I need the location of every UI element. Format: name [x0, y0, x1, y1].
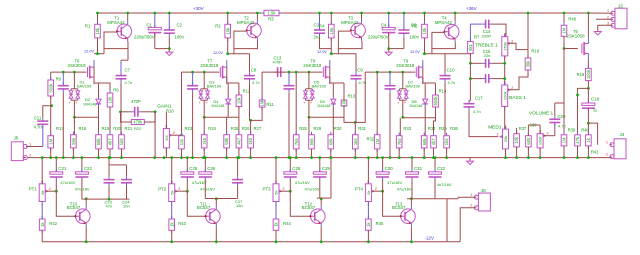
svg-text:5k: 5k — [366, 191, 371, 195]
wire to D2 — [98, 83, 100, 97]
wire T1 collector to rail — [127, 13, 129, 21]
wire C32 top — [434, 158, 436, 172]
junction tone cap1 right — [503, 62, 506, 65]
wire C24 top — [126, 165, 128, 176]
wire R39 bottom — [563, 146, 565, 158]
wire stage1 gate line — [51, 71, 87, 73]
junction C30 rail — [381, 156, 384, 159]
wire J5 pin1 — [26, 146, 43, 148]
svg-text:C30: C30 — [385, 166, 394, 171]
junction PT4 rail — [367, 156, 370, 159]
diode D4 1N4148 — [226, 97, 231, 106]
wire stage1 gate cap bottom — [62, 92, 64, 157]
wire R37 top — [516, 128, 518, 134]
svg-text:3: 3 — [165, 125, 167, 129]
wire R28 bottom — [295, 149, 297, 158]
wire R38 to VOLUME top — [528, 124, 540, 126]
svg-text:R36: R36 — [450, 126, 458, 131]
wire stage2 cross — [204, 116, 239, 118]
ground — [467, 158, 474, 165]
junction stage3 pair — [308, 71, 311, 74]
wire R37 bottom — [516, 147, 518, 158]
svg-text:470k: 470k — [133, 120, 143, 125]
svg-text:47u/16V: 47u/16V — [200, 187, 215, 192]
capacitor stage4 gate cap — [385, 82, 396, 92]
wire stage3 cross — [309, 116, 344, 118]
svg-text:1: 1 — [606, 141, 608, 145]
junction C21 rail — [55, 156, 58, 159]
svg-text:R19: R19 — [102, 126, 110, 131]
wire PT2 to R43 — [171, 205, 173, 220]
svg-text:C4: C4 — [381, 22, 387, 27]
junction stage2 drain node — [226, 52, 229, 55]
junction T13 emitter rail — [410, 240, 413, 243]
resistor R46 — [563, 13, 565, 22]
wire RC pair right — [141, 111, 155, 113]
potentiometer MED1 — [497, 125, 509, 154]
potentiometer R10 GAIN1 — [163, 125, 175, 154]
wire PT4 to R45 — [367, 205, 369, 220]
wire R45 bottom — [367, 230, 369, 242]
wire PT3 wiper — [280, 190, 291, 192]
svg-text:C22: C22 — [84, 166, 93, 171]
svg-text:J3: J3 — [618, 4, 623, 9]
junction tone cap2 left — [469, 77, 472, 80]
capacitor C20 symbol — [549, 116, 560, 126]
svg-text:1M: 1M — [164, 135, 169, 141]
wire output gate node down — [563, 49, 565, 104]
wire R42 bottom — [41, 230, 43, 242]
svg-text:3: 3 — [504, 81, 506, 85]
svg-text:R1: R1 — [85, 24, 91, 29]
wire C2 bottom — [168, 37, 170, 49]
wire J3 pin2 stub — [596, 18, 613, 20]
transistor T1 MPSA42 — [116, 21, 132, 42]
svg-text:R30: R30 — [334, 126, 342, 131]
wire bus2 — [205, 198, 237, 200]
wire T3 collector to rail — [361, 13, 363, 20]
svg-text:1N4148: 1N4148 — [317, 104, 330, 108]
wire T3 emitter loop — [338, 41, 362, 49]
svg-text:7k5: 7k5 — [397, 138, 402, 145]
ground stage1 caps — [166, 49, 173, 56]
junction R25 rail — [225, 156, 228, 159]
resistor R37 — [514, 131, 520, 150]
junction C1C2 ground node — [168, 47, 171, 50]
resistor R25 — [224, 132, 230, 151]
wire source to R13 — [333, 82, 344, 84]
wire cap to wiper junction — [186, 179, 188, 191]
wire +30V top rail left segment — [98, 12, 265, 14]
wire C25 top — [186, 158, 188, 172]
junction stage2 gate cap — [191, 71, 194, 74]
capacitor C6 gate — [58, 82, 69, 92]
junction C29 rail — [318, 156, 321, 159]
svg-text:10k: 10k — [108, 96, 113, 104]
junction RC rail — [153, 156, 156, 159]
capacitor C12 470P — [131, 107, 141, 117]
svg-text:C6: C6 — [411, 22, 417, 27]
junction R2 top — [226, 12, 229, 15]
svg-text:4.7n: 4.7n — [448, 80, 456, 85]
wire PT3 top — [275, 158, 277, 184]
resistor R1 — [95, 21, 101, 41]
wire R22 right leg — [144, 112, 155, 122]
wire R31 bottom — [354, 149, 356, 158]
junction R34 rail — [423, 156, 426, 159]
resistor R41 — [587, 123, 589, 135]
wire stage2 cap bottom — [192, 92, 194, 157]
wire stage4 out to tone stack — [445, 53, 470, 55]
wire T2 collector to rail — [256, 13, 258, 20]
svg-text:47u/16V: 47u/16V — [397, 187, 412, 192]
resistor R13 — [341, 97, 347, 109]
junction R19 rail — [97, 156, 100, 159]
svg-text:10k: 10k — [329, 27, 334, 35]
wire stage1 pair bottom — [73, 100, 75, 117]
resistor R4 — [329, 21, 335, 41]
wire to D8 — [424, 83, 426, 97]
transistor T13 BC547 — [400, 206, 416, 227]
junction R40 col — [576, 94, 579, 97]
wire D6 to R30 — [332, 106, 334, 135]
capacitor C5 symbol — [398, 27, 409, 37]
junction R38 rail — [527, 156, 530, 159]
svg-text:C29: C29 — [322, 166, 331, 171]
trimmer PT3 — [273, 180, 285, 207]
wire emitter node down — [127, 49, 129, 61]
wire to R33 — [399, 118, 401, 136]
junction C8 R11 — [249, 119, 252, 122]
svg-text:J6: J6 — [481, 188, 486, 193]
svg-text:R37: R37 — [519, 126, 527, 131]
svg-text:R44: R44 — [283, 221, 291, 226]
wire R36 bottom — [446, 148, 448, 158]
svg-text:R14: R14 — [439, 89, 447, 94]
svg-text:47u/16V: 47u/16V — [192, 180, 207, 185]
wire T13 emitter to bottom rail — [410, 227, 412, 242]
junction C5 top — [403, 12, 406, 15]
svg-text:R9: R9 — [56, 77, 62, 82]
wire GAIN1 bottom — [165, 148, 167, 158]
wire stage2 pair bottom — [203, 100, 205, 117]
svg-text:10k: 10k — [225, 27, 230, 35]
svg-text:C32: C32 — [437, 166, 446, 171]
wire tone right bus upper — [504, 56, 506, 85]
junction R27 rail — [249, 156, 252, 159]
wire stage4 cap top — [389, 72, 391, 84]
svg-text:C8: C8 — [251, 68, 257, 73]
svg-text:2: 2 — [497, 133, 499, 137]
svg-text:R21: R21 — [125, 126, 133, 131]
wire R2 bottom to drain node — [227, 38, 229, 54]
wire R28 top — [295, 72, 297, 135]
capacitor C30 — [376, 169, 389, 180]
junction PT4 wiper node — [381, 190, 384, 193]
wire C4 C5 join — [389, 48, 404, 50]
wire treble wiper to R16 — [508, 43, 528, 49]
resistor R3 — [261, 10, 282, 16]
wire R18 bottom — [72, 148, 74, 158]
svg-text:C26: C26 — [207, 166, 216, 171]
wire C18 bottom — [587, 108, 589, 123]
wire PT4 wiper to T13 base — [383, 191, 401, 216]
svg-text:R18: R18 — [79, 126, 87, 131]
svg-text:47k: 47k — [575, 136, 580, 144]
trimmer PT2 — [169, 180, 181, 207]
transistor T5 2SK1058 MOSFET — [582, 37, 589, 61]
svg-text:1M: 1M — [48, 138, 53, 144]
junction T1 collector rail — [126, 12, 129, 15]
wire C10 bottom — [444, 82, 446, 135]
capacitor C23 47n — [104, 176, 115, 186]
junction R5 top — [423, 12, 426, 15]
wire C21 top — [55, 158, 57, 172]
wire VOLUME wiper to C20 — [544, 135, 555, 137]
resistor R20 — [107, 132, 113, 152]
junction stage3 drain node — [330, 52, 333, 55]
svg-text:4k7: 4k7 — [108, 138, 113, 145]
resistor R5 — [422, 21, 428, 41]
svg-text:100n: 100n — [175, 34, 185, 39]
wire C7 top tap — [121, 59, 128, 61]
junction PT1 rail — [41, 156, 44, 159]
svg-text:68k: 68k — [328, 138, 333, 146]
wire PT4 wiper — [372, 190, 383, 192]
svg-text:1N4148: 1N4148 — [409, 104, 422, 108]
wire PT2 wiper to T11 base — [187, 191, 205, 216]
svg-text:100k: 100k — [502, 91, 507, 100]
wire PT2 top — [171, 158, 173, 184]
wire rail to J3 pin1 — [589, 12, 614, 14]
diode pair D3 BAV199 — [198, 89, 209, 105]
junction stage2 pair node — [203, 116, 206, 119]
junction R32 gate — [376, 71, 379, 74]
node stage4 top resistor column — [424, 13, 426, 24]
resistor R44 — [273, 216, 279, 233]
resistor R34 — [421, 133, 427, 151]
capacitor stage3 gate cap — [284, 82, 295, 92]
wire C22 to bus1 — [81, 179, 83, 199]
capacitor C11 symbol — [37, 118, 48, 128]
wire R1 bottom to drain node — [97, 38, 99, 54]
wire C30 top — [382, 158, 384, 172]
capacitor C18 output — [587, 88, 589, 103]
junction tone cap1 left — [469, 62, 472, 65]
svg-text:1k5: 1k5 — [248, 137, 253, 144]
wire T13 collector to bus — [410, 199, 412, 206]
node stage1 top resistor column — [97, 13, 99, 24]
svg-text:R10: R10 — [166, 108, 174, 113]
wire T2 emitter loop — [234, 41, 258, 49]
wire T1 emitter loop — [104, 42, 128, 49]
svg-text:2: 2 — [375, 187, 377, 191]
svg-text:2SK1058: 2SK1058 — [567, 33, 586, 38]
capacitor C5 — [403, 13, 405, 28]
svg-text:250k: 250k — [502, 42, 507, 51]
wire R11 elbow to R27 — [251, 107, 263, 120]
capacitor C17 4.7n — [464, 100, 475, 110]
resistor R12 — [236, 92, 242, 110]
wire C29 top — [319, 158, 321, 172]
transistor T11 BC547 — [205, 206, 221, 227]
ground stage4 caps — [385, 49, 392, 56]
junction C31 rail — [411, 156, 414, 159]
junction R23 rail — [180, 156, 183, 159]
wire to R31 — [354, 122, 356, 134]
capacitor C15 22n — [470, 62, 482, 64]
capacitor C4 — [388, 13, 390, 27]
wire R26 bottom — [238, 148, 240, 158]
svg-text:4k7: 4k7 — [237, 137, 242, 144]
transistor T7 2SK3018 MOSFET — [220, 60, 227, 84]
capacitor C1 symbol — [148, 24, 161, 35]
svg-text:2SK3018: 2SK3018 — [396, 63, 415, 68]
svg-text:47u/16V: 47u/16V — [387, 180, 402, 185]
capacitor C24 10n — [121, 176, 132, 186]
wire C5 bottom — [403, 37, 405, 49]
junction bus3 rail — [330, 156, 333, 159]
wire stage2 drain node — [227, 53, 250, 55]
wire C9 bottom — [355, 82, 357, 122]
svg-text:500k: 500k — [433, 96, 438, 106]
capacitor C7 — [116, 72, 127, 82]
resistor R35 — [431, 133, 437, 151]
svg-text:BAV199: BAV199 — [312, 83, 327, 88]
capacitor C9 — [351, 72, 362, 82]
svg-text:68k: 68k — [224, 137, 229, 145]
capacitor C8 — [244, 72, 255, 82]
wire GAIN1 wiper — [171, 134, 181, 136]
svg-text:4.7n: 4.7n — [558, 124, 566, 129]
wire GAIN1 top — [165, 112, 167, 129]
wire ground mid rail — [23, 157, 612, 159]
resistor R33 — [396, 133, 402, 151]
resistor R18b — [586, 65, 592, 83]
svg-text:2: 2 — [283, 187, 285, 191]
capacitor C18 symbol — [582, 100, 595, 111]
svg-text:R24: R24 — [208, 126, 216, 131]
resistor R14 — [433, 92, 439, 110]
svg-text:10k: 10k — [514, 136, 519, 144]
svg-text:10k: 10k — [95, 27, 100, 35]
transistor T6 2SK3018 MOSFET — [88, 60, 95, 84]
wire C18 to J4 pin1 — [588, 123, 597, 145]
wire stage4 gate line — [365, 71, 415, 73]
resistor R31 — [353, 132, 359, 152]
junction C26 rail — [204, 156, 207, 159]
wire bus4 to J6 pin1 b — [458, 196, 476, 198]
svg-text:56k: 56k — [309, 138, 314, 146]
junction stage3 pair node — [308, 116, 311, 119]
svg-text:C2: C2 — [177, 22, 183, 27]
junction T4 collector rail — [454, 12, 457, 15]
svg-text:R41: R41 — [591, 150, 599, 155]
wire C23 C24 bridge — [109, 164, 127, 166]
svg-text:R33: R33 — [403, 126, 411, 131]
resistor R43 — [169, 216, 175, 233]
svg-text:2SK3018: 2SK3018 — [303, 63, 322, 68]
wire R11 top — [261, 72, 263, 100]
wire PT3 wiper to T12 base — [290, 191, 310, 216]
capacitor C3 symbol — [314, 27, 325, 37]
wire T5 drain to rail — [587, 13, 589, 37]
junction T3 collector rail — [360, 12, 363, 15]
junction C25 rail — [186, 156, 189, 159]
wire T10 collector to bus — [85, 199, 87, 206]
junction R18 rail — [72, 156, 75, 159]
wire to D4 — [227, 83, 229, 97]
wire RC pair left — [121, 111, 132, 113]
svg-text:39k: 39k — [526, 60, 531, 68]
junction tone cap2 right — [503, 77, 506, 80]
svg-text:100k: 100k — [586, 69, 591, 79]
wire R41 bottom — [587, 146, 589, 158]
svg-text:2: 2 — [178, 187, 180, 191]
wire R34 bottom — [423, 148, 425, 158]
wire stage1 drain node — [94, 53, 104, 55]
svg-text:2: 2 — [470, 204, 472, 208]
svg-text:R22: R22 — [134, 126, 142, 131]
svg-text:5k: 5k — [40, 191, 45, 195]
svg-text:MPSA42: MPSA42 — [107, 20, 125, 25]
wire T4 emitter loop — [432, 42, 455, 48]
wire R13 top — [343, 83, 345, 100]
transistor T4 MPSA42 — [444, 21, 460, 42]
svg-text:4k7: 4k7 — [431, 138, 436, 145]
resistor R26 — [236, 132, 242, 151]
wire C1 C2 join — [155, 48, 170, 50]
wire J6 pin2 to bottom rail — [460, 208, 476, 242]
junction VOLUME rail — [539, 156, 542, 159]
junction R35 rail — [432, 156, 435, 159]
junction R36 rail — [445, 156, 448, 159]
wire source to R14 — [425, 82, 435, 84]
resistor R45 — [366, 216, 372, 233]
svg-text:12.0V: 12.0V — [410, 50, 420, 54]
resistor R17 — [48, 133, 54, 151]
junction T11 collector bus — [215, 197, 218, 200]
wire C28 top — [289, 158, 291, 172]
transistor T12 BC547 — [310, 206, 326, 227]
junction R28 rail — [295, 156, 298, 159]
svg-text:R31: R31 — [358, 126, 366, 131]
wire stage2 source elbow — [227, 67, 228, 83]
junction stage1 gate cap — [62, 71, 65, 74]
junction RC pair right — [154, 110, 157, 113]
wire R12 to R26 — [238, 107, 240, 135]
junction R4 top — [330, 12, 333, 15]
wire C27 top — [237, 158, 239, 177]
wire R38 top — [527, 125, 529, 136]
junction output gate node — [563, 47, 566, 50]
wire VOLUME bottom — [539, 148, 541, 158]
svg-text:C25: C25 — [189, 166, 198, 171]
svg-text:4.7n: 4.7n — [252, 80, 260, 85]
svg-text:2: 2 — [607, 15, 609, 19]
svg-text:C10: C10 — [447, 68, 456, 73]
svg-text:1N4148: 1N4148 — [211, 104, 224, 108]
connector J6 — [470, 188, 490, 211]
wire to R27 — [250, 120, 252, 134]
connector J4 output jack — [606, 132, 626, 159]
capacitor stage2 gate cap — [187, 82, 198, 92]
svg-text:BC547: BC547 — [302, 205, 316, 210]
capacitor C16 10n — [470, 78, 482, 80]
capacitor C3 — [319, 13, 321, 28]
wire stage3 cap bottom — [288, 92, 290, 157]
wire J4 pin2 stub — [610, 157, 612, 158]
